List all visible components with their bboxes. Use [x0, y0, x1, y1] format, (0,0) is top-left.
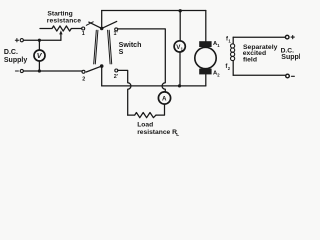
plus sign (right supply) — [291, 36, 294, 39]
wire: voltmeter bottom lead — [38, 61, 40, 71]
switch blade to contact 1 — [89, 22, 102, 28]
wire: switch top to rail — [101, 11, 103, 29]
junction dot (rail / V1) — [179, 9, 182, 12]
motor armature brush bottom — [199, 69, 211, 75]
wire: load to 2' (with hop over bottom rail) — [118, 70, 131, 115]
field winding f1-f2 : top lead — [232, 37, 234, 44]
svg-text:1: 1 — [217, 43, 220, 48]
wire: voltmeter top lead — [38, 40, 40, 50]
svg-text:L: L — [176, 132, 179, 138]
terminal 2 — [82, 70, 85, 73]
field winding bottom lead — [232, 61, 234, 76]
motor armature — [195, 47, 216, 68]
switch handle bar left — [94, 30, 98, 64]
junction dot (bottom rail / V1) — [178, 84, 181, 87]
junction dot (- line / voltmeter) — [38, 69, 41, 72]
svg-text:field: field — [243, 57, 257, 64]
svg-text:2: 2 — [82, 76, 85, 82]
wire: bottom rail — [102, 85, 206, 87]
ammeter A — [158, 92, 170, 104]
svg-text:D.C.: D.C. — [4, 49, 18, 56]
wire: switch bottom to rail — [101, 66, 103, 86]
svg-text:V: V — [37, 51, 43, 60]
wire: armature bottom lead — [205, 74, 207, 86]
motor armature brush top — [199, 41, 211, 47]
minus sign (left supply) — [15, 70, 18, 72]
switch S : top pivot dot — [100, 27, 104, 31]
terminal - (right supply) — [286, 74, 290, 78]
rheostat wiper arrow — [60, 33, 62, 40]
svg-text:resistance: resistance — [47, 17, 81, 24]
switch handle bar right — [108, 30, 112, 64]
resistor: starting resistance — [40, 26, 82, 31]
svg-text:A: A — [162, 95, 167, 102]
field winding coil — [231, 44, 235, 48]
svg-text:Supply: Supply — [281, 54, 300, 61]
resistor: load resistance RL — [128, 113, 156, 118]
plus sign (left supply) — [15, 39, 18, 42]
voltmeter V1 — [174, 41, 185, 52]
switch jaw at contact 1 — [86, 22, 93, 26]
svg-text:1: 1 — [82, 31, 85, 37]
svg-text:Supply: Supply — [4, 57, 27, 64]
svg-text:S: S — [119, 48, 124, 56]
wire: top rail — [102, 10, 206, 12]
switch blade to contact 2 — [86, 66, 102, 72]
terminal + (left supply) — [20, 39, 23, 42]
wire: V1 top lead — [179, 11, 181, 41]
wire: ammeter to load resistance — [156, 104, 165, 115]
switch blade to contact 1' — [102, 21, 117, 28]
terminal - (left supply) — [20, 69, 23, 72]
wire: armature top lead — [205, 11, 207, 42]
wire: 1' to ammeter (with hop over bottom rail) — [118, 29, 166, 92]
terminal 2' — [115, 69, 118, 72]
wire: - supply line — [24, 70, 83, 72]
terminal 1' — [115, 28, 118, 31]
minus sign (right supply) — [291, 75, 294, 77]
switch S : bottom pivot dot — [100, 64, 104, 68]
svg-text:1': 1' — [114, 31, 118, 37]
wire: field + wire — [233, 36, 285, 38]
wire: + supply line — [24, 39, 61, 41]
terminal 1 — [82, 27, 85, 30]
svg-text:resistance R: resistance R — [137, 129, 177, 136]
svg-text:2': 2' — [114, 74, 118, 80]
svg-text:1: 1 — [228, 38, 231, 43]
terminal + (right supply) — [285, 35, 289, 39]
svg-text:2: 2 — [217, 73, 220, 78]
svg-text:2: 2 — [228, 66, 231, 71]
wire: V1 bottom lead — [179, 52, 181, 86]
junction dot (+ line / voltmeter) — [38, 39, 41, 42]
wire: field - wire — [233, 74, 285, 76]
svg-text:Load: Load — [137, 121, 153, 128]
voltmeter V — [34, 50, 45, 61]
